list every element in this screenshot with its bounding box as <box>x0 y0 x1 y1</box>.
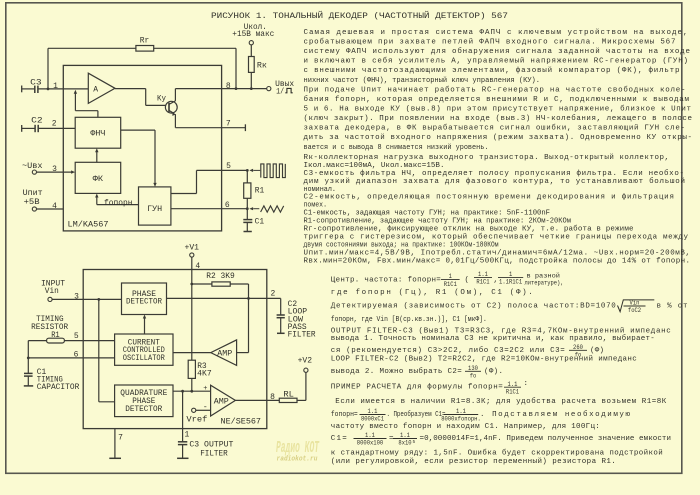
wire pin 1 to capacitor C3 <box>182 391 184 441</box>
wire pin 6 <box>28 357 114 359</box>
ground <box>244 231 252 233</box>
terminal Uвых <box>267 87 271 91</box>
svg-text:частоту вместо fопорн и находи: частоту вместо fопорн и находим C1. Напр… <box>331 423 600 431</box>
svg-text:(Ф): (Ф) <box>590 347 604 355</box>
svg-text:Rк: Rк <box>257 62 267 71</box>
svg-text:FILTER: FILTER <box>200 449 228 458</box>
wire pin 7 to ground <box>114 429 116 459</box>
terminal +V2 <box>305 372 307 400</box>
arrow ФК to ФНЧ <box>96 151 98 162</box>
svg-text:8: 8 <box>226 82 231 91</box>
svg-text:1.1R1C1: 1.1R1C1 <box>499 279 522 286</box>
svg-text:бания fопорн, которая определя: бания fопорн, которая определяется внешн… <box>304 95 690 104</box>
terminal Vref <box>192 408 196 412</box>
svg-text:триггера с гистерезисом, котор: триггера с гистерезисом, который обеспеч… <box>304 233 689 242</box>
svg-text:Rг-сопротивление, фиксирующее: Rг-сопротивление, фиксирующее отклик на … <box>304 225 634 234</box>
svg-text:ГУН: ГУН <box>147 205 162 214</box>
svg-text:. Подставляем необходимую: . Подставляем необходимую <box>480 410 630 419</box>
square wave symbol at pin 5 <box>249 169 253 172</box>
svg-text:DETECTOR: DETECTOR <box>125 405 162 414</box>
svg-text:radiokot.ru: radiokot.ru <box>277 456 319 464</box>
svg-text:fo: fo <box>470 373 477 380</box>
svg-text:AMP: AMP <box>214 398 229 407</box>
terminal Uпит +5В pin 4 <box>32 207 36 211</box>
svg-text:R2 3K9: R2 3K9 <box>206 272 235 281</box>
svg-text:систему ФАПЧ используют для об: систему ФАПЧ используют для обнаружения … <box>304 47 691 56</box>
svg-text:РИСУНОК 1. ТОНАЛЬНЫЙ ДЕКОДЕР: РИСУНОК 1. ТОНАЛЬНЫЙ ДЕКОДЕР (ЧАСТОТНЫЙ … <box>211 11 508 21</box>
svg-text:вывода 2. Можно выбрать C2=: вывода 2. Можно выбрать C2= <box>331 367 462 376</box>
block ФК <box>75 162 121 193</box>
ground <box>177 457 188 459</box>
svg-text:~Uвх: ~Uвх <box>22 162 43 171</box>
transistor Kу <box>165 101 177 113</box>
svg-text:помех.: помех. <box>304 202 328 210</box>
svg-text:8x10: 8x10 <box>398 440 412 447</box>
op-amp A <box>88 73 115 103</box>
svg-text:в % от: в % от <box>657 302 688 310</box>
svg-text:R1: R1 <box>255 187 265 196</box>
svg-text:сробатывающем при захвате петл: сробатывающем при захвате петлей ФАПЧ вх… <box>304 38 676 47</box>
svg-text:C1=: C1= <box>331 435 347 443</box>
svg-text:LM/KA567: LM/KA567 <box>68 220 109 229</box>
block ГУН <box>139 187 171 225</box>
svg-text:RL: RL <box>283 390 294 399</box>
svg-text:Vin: Vin <box>45 287 59 296</box>
svg-text:4: 4 <box>52 202 57 211</box>
terminal +V1 pin 4 wire <box>190 253 194 257</box>
resistor R1 <box>246 170 248 183</box>
wire quadrature detector to AMP2 plus input <box>173 390 211 392</box>
svg-text:C3: C3 <box>30 78 42 87</box>
svg-text:4: 4 <box>195 262 200 271</box>
svg-text:Детектируемая (зависимость от: Детектируемая (зависимость от C2) полоса… <box>331 302 616 310</box>
ground <box>24 385 33 387</box>
terminal Uкол +15В макс <box>249 41 253 45</box>
svg-text:1/: 1/ <box>276 87 284 96</box>
wire ГУН to pin 6 <box>171 208 247 210</box>
svg-text:литературе),: литературе), <box>525 279 564 286</box>
svg-text:+V1: +V1 <box>185 244 200 253</box>
svg-text:к стандартному ряду: 1,5nF. Ош: к стандартному ряду: 1,5nF. Ошибка будет… <box>331 449 663 458</box>
svg-text:Rr: Rr <box>140 37 150 46</box>
svg-text:fопорн, где Vin [В(ср.кв.зн.)]: fопорн, где Vin [В(ср.кв.зн.)], C1 [мкФ]… <box>331 316 487 324</box>
wire op-amp output to transistor base <box>115 88 146 90</box>
IC U2 NE/SE567 box <box>83 270 267 429</box>
resistor RL <box>279 398 297 402</box>
svg-text:1: 1 <box>184 431 189 440</box>
resistor Rr <box>136 46 154 52</box>
svg-text:ФНЧ: ФНЧ <box>90 130 105 139</box>
svg-text:с внешними частотозадающими эл: с внешними частотозадающими элементами, … <box>304 66 680 75</box>
wire emitter to pin 7 with open end tick <box>174 114 176 128</box>
svg-text:(Ф).: (Ф). <box>484 368 503 376</box>
svg-text:AMP: AMP <box>217 350 232 359</box>
resistor Rr feedback loop wire <box>47 48 49 89</box>
svg-text:ПРИМЕР РАСЧЕТА для формулы fоп: ПРИМЕР РАСЧЕТА для формулы fопорн= <box>331 384 503 392</box>
svg-text:дим узкий диапазон захвата для: дим узкий диапазон захвата для фазового … <box>304 177 686 186</box>
text paragraph about component values <box>304 153 691 266</box>
svg-text:FILTER: FILTER <box>288 331 316 340</box>
svg-text:(: ( <box>465 277 470 285</box>
IC U1 LM/KA567 box <box>63 65 221 231</box>
svg-text:R1C1: R1C1 <box>506 388 520 395</box>
svg-text:Kу: Kу <box>157 94 166 103</box>
resistor R1 timing <box>28 340 46 342</box>
capacitor C1 <box>246 209 248 219</box>
wire pin 3 node to quadrature detector <box>98 299 100 401</box>
arrow oscillator to phase detector <box>144 317 146 334</box>
svg-text:3: 3 <box>74 292 79 301</box>
svg-text:=: = <box>389 435 394 443</box>
svg-text:fопорн: fопорн <box>104 199 133 208</box>
text детектируемая полоса с формулой BD <box>331 300 688 315</box>
svg-text:DETECTOR: DETECTOR <box>126 298 162 307</box>
svg-text:=0,0000014F=1,4nF. Приведем по: =0,0000014F=1,4nF. Приведем полученное з… <box>420 435 672 443</box>
svg-text:4K7: 4K7 <box>197 370 212 379</box>
wire phase detector output to pin 2 <box>167 297 281 299</box>
wire ГУН to pin 5 <box>171 193 197 195</box>
resistor R3 4K7 <box>188 360 195 378</box>
svg-text:1: 1 <box>53 82 58 91</box>
capacitor C2 loop filter <box>280 298 282 314</box>
svg-text:Uпит: Uпит <box>23 189 43 198</box>
svg-text:RESISTOR: RESISTOR <box>31 323 68 332</box>
svg-text:C3-емкость фильтра НЧ, определ: C3-емкость фильтра НЧ, определяет полосу… <box>304 169 685 178</box>
svg-text:R1C1: R1C1 <box>444 281 458 288</box>
svg-text:5: 5 <box>226 162 231 171</box>
text fопорн преобразуем с формулами <box>331 408 631 423</box>
svg-text:Если имеется в наличии R1=8.3К: Если имеется в наличии R1=8.3К; для удоб… <box>335 397 666 406</box>
wire collector to pin 8 node <box>174 89 176 101</box>
svg-text:где fопорн (Гц), R1 (Ом), C1 (: где fопорн (Гц), R1 (Ом), C1 (Ф). <box>331 289 533 297</box>
terminal INPUT Vin pin 3 <box>48 297 52 301</box>
capacitor C2 <box>21 125 23 132</box>
svg-text:+: + <box>203 385 207 393</box>
svg-text:вывода 1. Точность номинала C3: вывода 1. Точность номинала C3 не критич… <box>331 334 655 343</box>
svg-text:6: 6 <box>225 201 230 210</box>
svg-text:При подаче Uпит начинает работ: При подаче Uпит начинает работать RC-ген… <box>304 85 686 94</box>
svg-text:+V2: +V2 <box>298 356 313 365</box>
svg-text:R1C1: R1C1 <box>476 279 490 286</box>
svg-text:OSCILLATOR: OSCILLATOR <box>123 354 165 363</box>
svg-text:. Преобразуем C1=: . Преобразуем C1= <box>387 410 446 419</box>
svg-text:,: , <box>494 277 499 285</box>
svg-text:в разной: в разной <box>527 272 561 279</box>
svg-text:ся (рекомендуется) C3>2C2, либ: ся (рекомендуется) C3>2C2, либо C3=2C2 и… <box>331 346 565 355</box>
svg-text:Rк-коллекторная нагрузка выход: Rк-коллекторная нагрузка выходного транз… <box>304 153 670 162</box>
wire fопорн ГУН to ФК with arrow <box>97 204 139 206</box>
text вывода 2 с формулой 130/fo <box>331 365 503 380</box>
svg-text:6: 6 <box>74 350 79 359</box>
svg-text:C2: C2 <box>31 116 43 125</box>
svg-text:7: 7 <box>118 433 123 442</box>
text paragraph about ФАПЧ system <box>304 28 693 152</box>
wire AMP1 to oscillator <box>173 352 211 354</box>
text formula центральная частота <box>331 271 564 288</box>
svg-text:C1: C1 <box>255 217 265 226</box>
capacitor C1 timing <box>27 341 29 373</box>
svg-text:5 и 6. На выходе КУ (выв.8) пр: 5 и 6. На выходе КУ (выв.8) при этом при… <box>304 105 692 114</box>
svg-text:NE/SE567: NE/SE567 <box>221 417 262 426</box>
terminal ~Uвх pin 3 <box>32 170 36 174</box>
capacitor C3 <box>21 86 23 93</box>
svg-text:8000xfопорн.: 8000xfопорн. <box>441 416 481 423</box>
svg-text:R1-сопротивление, задающее час: R1-сопротивление, задающее частоту ГУН; … <box>304 218 572 226</box>
svg-text:захвата декодера, в ФК вырабат: захвата декодера, в ФК вырабатывается си… <box>304 124 686 133</box>
svg-text:Центр. частота: fопорн=: Центр. частота: fопорн= <box>331 277 441 285</box>
svg-text:8000x100: 8000x100 <box>357 440 384 447</box>
svg-text:7: 7 <box>226 119 231 128</box>
svg-text:и включают в себя усилитель А,: и включают в себя усилитель А, управляем… <box>304 57 689 66</box>
triangle wave symbol at pin 6 <box>249 207 253 210</box>
svg-text:Uпит.мин/макс=4,5В/9В, Iпотреб: Uпит.мин/макс=4,5В/9В, Iпотребл.статич/д… <box>304 249 691 258</box>
wire R2 to amp input <box>248 284 250 353</box>
svg-text:foC2: foC2 <box>628 307 642 314</box>
resistor R2 3K9 <box>192 283 212 285</box>
wire ФНЧ to ГУН with arrow <box>121 129 155 131</box>
capacitor C3 output filter <box>178 441 187 443</box>
text ПРИМЕР РАСЧЕТА с формулой <box>331 380 528 395</box>
svg-text::: : <box>524 380 529 388</box>
svg-text:5: 5 <box>74 332 79 341</box>
svg-text:Самая дешевая и простая систем: Самая дешевая и простая система ФАПЧ с к… <box>304 28 688 37</box>
ground <box>277 332 285 334</box>
svg-text:+5В: +5В <box>24 198 40 207</box>
resistor Rк <box>250 45 252 57</box>
svg-text:(или регулировкой, если резист: (или регулировкой, если резистор перемен… <box>331 457 616 466</box>
svg-text:A: A <box>93 86 98 95</box>
svg-text:5: 5 <box>413 439 416 445</box>
block QUADRATURE PHASE DETECTOR <box>115 385 173 417</box>
svg-text:3: 3 <box>52 165 57 174</box>
text C1 расчет с формулами <box>331 432 671 447</box>
svg-text:(ключ закрыт). При появлении н: (ключ закрыт). При появлении на входе (в… <box>304 114 693 123</box>
wire AMP2 output to pin 8 <box>235 399 279 401</box>
op-amp AMP2 output amp <box>211 385 236 416</box>
ground <box>109 457 121 459</box>
svg-text:LOOP FILTER-C2 (Выв2) T2=R2C2,: LOOP FILTER-C2 (Выв2) T2=R2C2, где R2=10… <box>331 355 637 364</box>
svg-text:C2-емкость, определяющая посто: C2-емкость, определяющая постоянную врем… <box>304 194 675 202</box>
block PHASE DETECTOR <box>122 283 167 315</box>
text ся рекомендуется с формулой 260/fo <box>331 344 604 359</box>
svg-text:2: 2 <box>270 290 275 299</box>
svg-text:fопорн=: fопорн= <box>331 411 358 419</box>
block CURRENT CONTROLLED OSCILLATOR <box>115 334 173 365</box>
svg-text:номинал.: номинал. <box>304 186 337 194</box>
block ФНЧ <box>75 117 121 148</box>
svg-text:8: 8 <box>270 393 275 402</box>
svg-text:+15В макс: +15В макс <box>232 30 274 39</box>
wire ФНЧ to op-amp input with arrow <box>97 111 99 118</box>
svg-text:C1-емкость, задающая частоту Г: C1-емкость, задающая частоту ГУН; на пра… <box>304 210 551 218</box>
svg-text:нихних частот (ФНЧ), транзисто: нихних частот (ФНЧ), транзисторный ключ … <box>304 76 541 85</box>
svg-text:8000xC1: 8000xC1 <box>361 416 384 423</box>
svg-text:Vref: Vref <box>186 415 207 424</box>
svg-text:ФК: ФК <box>93 175 104 184</box>
svg-text:CAPACITOR: CAPACITOR <box>37 383 80 392</box>
op-amp AMP1 loop amp <box>211 340 237 366</box>
svg-text:2: 2 <box>52 120 57 129</box>
svg-text:C3 OUTPUT: C3 OUTPUT <box>189 440 233 449</box>
svg-text:Iкол.макс=100мА, Uкол.макс=15В: Iкол.макс=100мА, Uкол.макс=15В. <box>304 162 445 170</box>
svg-text:вается и с вывода 8 снимается: вается и с вывода 8 снимается низкий уро… <box>304 143 489 152</box>
svg-text:Rвх.мин=20КОм, Fвх.мин/макс= 0: Rвх.мин=20КОм, Fвх.мин/макс= 0,01Гц/500К… <box>304 257 691 266</box>
svg-text:дить за частотой входного напр: дить за частотой входного напряжения (ре… <box>304 133 693 142</box>
svg-text:двумя состояниями выхода; на п: двумя состояниями выхода; на практике: 1… <box>304 242 499 250</box>
